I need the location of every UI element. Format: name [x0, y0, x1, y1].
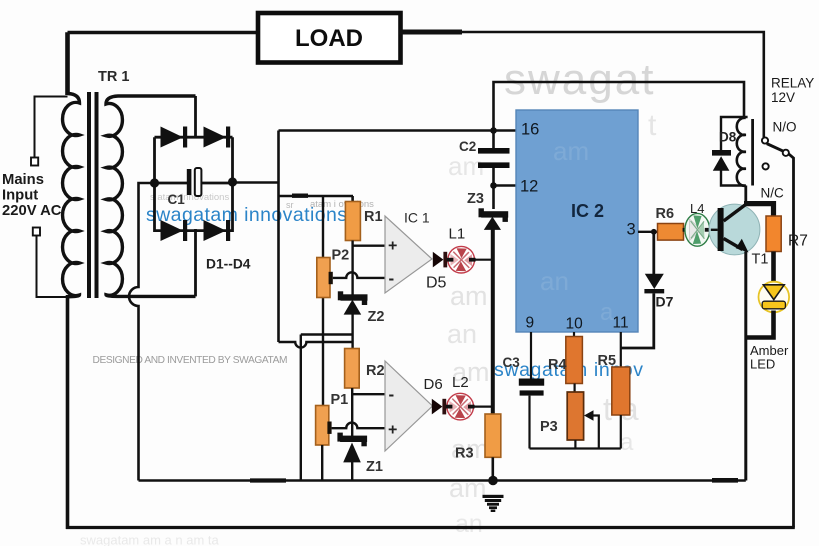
- potentiometer P1: [316, 406, 332, 446]
- transformer TR1 core: [87, 92, 99, 298]
- transformer TR1 primary winding: [63, 94, 80, 297]
- LED L2: [446, 393, 475, 420]
- svg-text:LED: LED: [750, 357, 775, 372]
- svg-text:-: -: [389, 269, 395, 288]
- transistor T1: [709, 204, 760, 255]
- svg-text:an: an: [455, 510, 483, 538]
- wire supply branch y=342 with hop at x=300.8: [279, 342, 353, 348]
- wire R3 to ground node: [491, 457, 494, 480]
- svg-text:3: 3: [627, 221, 636, 239]
- wire main riser thick (Z3 to R3): [491, 229, 495, 415]
- wire top rail bold dash: [292, 193, 308, 197]
- diode D5: [433, 252, 447, 268]
- svg-text:-: -: [389, 385, 395, 404]
- svg-text:a: a: [620, 429, 634, 456]
- wire ground bus bold dash 1: [250, 478, 286, 482]
- zener Z3: [479, 208, 509, 230]
- wire bridge mid rail with capacitor C1 gap: [155, 182, 233, 185]
- bridge diode D3 (bottom left): [161, 220, 188, 241]
- wire pin10 to R4: [573, 332, 575, 337]
- capacitor C3: [519, 379, 544, 396]
- wire T1 collector to relay coil: [744, 186, 747, 205]
- amber LED: [759, 282, 790, 313]
- wire P1 wiper to IC1b noninverting input (hop over R2 rail): [332, 423, 385, 429]
- wire Z1 to ground bus: [351, 462, 353, 481]
- wire secondary top to bridge top-center: [194, 96, 197, 139]
- svg-text:swagat: swagat: [504, 55, 655, 104]
- wire LOAD to relay N/O (top right): [401, 32, 764, 137]
- svg-text:Mains: Mains: [2, 172, 44, 188]
- svg-text:R3: R3: [455, 446, 474, 462]
- svg-text:LOAD: LOAD: [295, 25, 363, 52]
- wire supply riser x=278.5: [277, 131, 280, 343]
- wire pin3 to R6: [638, 231, 658, 233]
- svg-text:DESIGNED AND INVENTED BY SWAGA: DESIGNED AND INVENTED BY SWAGATAM: [93, 355, 288, 366]
- capacitor C1: [187, 168, 202, 196]
- svg-text:11: 11: [613, 315, 629, 332]
- svg-text:L4: L4: [690, 201, 704, 216]
- mains terminal 2: [33, 228, 68, 298]
- svg-text:t: t: [648, 109, 657, 142]
- ground symbol: [483, 495, 504, 512]
- svg-text:R4: R4: [548, 357, 567, 373]
- svg-text:swagatam am a n: swagatam am a n am ta: [80, 533, 219, 546]
- wire C2 to pin12 node: [492, 168, 495, 209]
- svg-text:am: am: [553, 136, 589, 166]
- wire pin12 stub: [494, 184, 517, 186]
- bridge diode D4 (bottom right): [204, 220, 231, 241]
- wire pin3 node down to D7: [652, 232, 655, 274]
- IC2 body: [516, 110, 638, 333]
- svg-text:Z2: Z2: [368, 309, 385, 325]
- wire pin16 stub: [494, 129, 517, 131]
- wire collector to R7 (thick N/C branch): [744, 204, 774, 216]
- svg-text:Z1: Z1: [366, 459, 383, 475]
- wire bottom rail: [66, 526, 795, 529]
- svg-text:swagatam innovations: swagatam innovations: [146, 204, 347, 226]
- WATERMARKS: [80, 55, 657, 546]
- svg-text:IC 1: IC 1: [404, 210, 430, 226]
- svg-text:C2: C2: [459, 139, 476, 154]
- svg-text:am: am: [449, 473, 487, 503]
- svg-text:IC 2: IC 2: [571, 201, 604, 221]
- svg-text:+: +: [388, 422, 397, 439]
- wire relay common to right rail and bottom rail: [789, 154, 794, 528]
- svg-text:R5: R5: [598, 353, 617, 369]
- svg-text:P2: P2: [332, 248, 350, 264]
- svg-text:16: 16: [521, 121, 539, 139]
- capacitor C2: [478, 148, 510, 168]
- wire +12V rail to IC2/C2 node: [279, 129, 494, 132]
- wire L2 to main riser: [474, 406, 493, 408]
- svg-text:N/O: N/O: [773, 120, 797, 135]
- node pin16/C2: [490, 127, 497, 134]
- wire bridge negative to down rail with hop over secondary wire: [129, 183, 154, 481]
- svg-text:D6: D6: [424, 376, 443, 393]
- wire P2 wiper to IC1a inverting input (hop over R1 rail): [333, 272, 385, 278]
- zener Z1: [337, 433, 367, 463]
- resistor R5: [612, 367, 630, 415]
- diode D7: [644, 274, 664, 294]
- label RELAY 12V: [771, 76, 814, 106]
- wire R7 to amber LED (thick): [771, 252, 776, 285]
- svg-text:10: 10: [566, 316, 584, 333]
- svg-text:TR 1: TR 1: [98, 69, 129, 85]
- wire L1 to main riser: [475, 259, 493, 261]
- svg-text:D8: D8: [719, 130, 737, 145]
- node bridge negative (left): [150, 178, 159, 187]
- resistor R4: [566, 337, 583, 384]
- wire top rail left to LOAD: [68, 31, 258, 35]
- svg-text:D1--D4: D1--D4: [206, 257, 251, 272]
- op-amp IC1a: [385, 216, 432, 293]
- svg-text:C3: C3: [503, 355, 521, 370]
- svg-text:T1: T1: [752, 252, 769, 268]
- wire R5 bottom to sub bus: [620, 415, 622, 449]
- potentiometer P2: [317, 258, 333, 298]
- wire P2/P1 feed vertical: [322, 196, 324, 406]
- svg-text:Input: Input: [2, 188, 38, 204]
- node pin3 branch: [651, 229, 657, 235]
- wire D7 to pin11 branch: [621, 293, 654, 348]
- svg-text:RELAY: RELAY: [771, 76, 814, 91]
- resistor R1: [345, 202, 360, 241]
- wire left rail upper (mains to top rail): [65, 32, 70, 95]
- potentiometer P3: [567, 392, 583, 440]
- bridge diode D2 (top right): [204, 127, 231, 148]
- svg-text:P3: P3: [540, 419, 558, 435]
- node bridge positive (right): [228, 177, 237, 186]
- svg-text:D5: D5: [426, 275, 447, 292]
- zener Z2: [338, 291, 368, 314]
- bridge diode D1 (top left): [161, 127, 188, 148]
- transformer TR1 secondary winding: [106, 96, 196, 296]
- resistor R7: [766, 216, 781, 252]
- wire ground sub-rail y=334.5: [301, 333, 353, 335]
- svg-text:D7: D7: [656, 294, 674, 310]
- wire P1 bottom to ground bus: [321, 445, 323, 481]
- svg-text:am: am: [450, 281, 488, 311]
- wire pin11 to R5: [620, 332, 622, 367]
- wire R4 to P3: [573, 384, 575, 393]
- diode D8 (freewheel): [712, 150, 731, 171]
- wire pin9 to C3: [530, 332, 532, 379]
- wire top branch y=82 (node to relay): [494, 82, 745, 131]
- LED L1: [447, 246, 476, 273]
- wire opamp block top rail: [279, 195, 354, 198]
- wire R1 feed from top rail: [351, 196, 354, 202]
- label Amber LED: [750, 343, 789, 372]
- P3 wiper arrow: [584, 410, 599, 448]
- wire R2 bottom to inverting input and down to Z1: [352, 388, 385, 437]
- svg-text:L1: L1: [449, 226, 466, 243]
- diode D6: [432, 399, 446, 415]
- wire P3 bottom to sub bus: [574, 440, 576, 449]
- svg-text:9: 9: [526, 315, 535, 332]
- svg-text:an: an: [540, 266, 569, 296]
- svg-text:an: an: [447, 319, 477, 349]
- op-amp IC1b: [385, 361, 433, 451]
- load box: [258, 13, 401, 63]
- wire R1 bottom to noninverting input and down to Z2: [353, 241, 385, 296]
- wire C3 to sub bus: [528, 396, 530, 449]
- node pin12/Z3: [490, 182, 497, 189]
- svg-text:a: a: [600, 299, 614, 326]
- wire Z2 to lower junction: [351, 314, 353, 349]
- wire ground bus bold dash 2: [712, 478, 738, 483]
- resistor R2: [345, 349, 360, 389]
- svg-text:220V AC: 220V AC: [2, 203, 62, 219]
- svg-text:R7: R7: [788, 233, 808, 250]
- relay N/O moving contact arm: [762, 137, 789, 169]
- svg-text:12: 12: [520, 178, 538, 196]
- svg-text:R1: R1: [364, 209, 383, 225]
- wire left drop x=300.8 to ground bus: [300, 335, 302, 481]
- LED L4: [683, 213, 711, 246]
- wire amber LED return (thick) to emitter line: [746, 311, 774, 338]
- wire timing sub bus: [530, 447, 621, 449]
- svg-text:Z3: Z3: [467, 191, 484, 207]
- wire node to C2: [492, 131, 495, 149]
- svg-text:P1: P1: [331, 392, 349, 408]
- wire main ground bus: [139, 479, 746, 482]
- svg-text:L2: L2: [452, 374, 469, 391]
- svg-text:12V: 12V: [771, 90, 795, 105]
- svg-text:R2: R2: [366, 363, 385, 379]
- bridge rectifier frame D1--D4: [155, 137, 233, 230]
- svg-text:R6: R6: [656, 206, 675, 222]
- wire T1 emitter to ground bus: [744, 252, 747, 481]
- svg-text:N/C: N/C: [761, 186, 785, 201]
- svg-text:+: +: [388, 238, 397, 255]
- wire bridge positive to supply riser: [233, 181, 279, 184]
- wire secondary bottom to bridge bottom-center: [194, 229, 197, 296]
- wire left rail lower (primary bottom to bottom rail): [66, 295, 70, 529]
- relay coil box: [721, 117, 753, 186]
- label Mains Input 220V AC: [2, 172, 62, 219]
- node ground: [488, 476, 498, 486]
- resistor R6: [658, 224, 684, 241]
- wire bold segment after LOAD: [399, 30, 462, 35]
- resistor R3: [485, 414, 501, 457]
- svg-text:C1: C1: [168, 192, 186, 207]
- mains terminal 1: [31, 97, 68, 166]
